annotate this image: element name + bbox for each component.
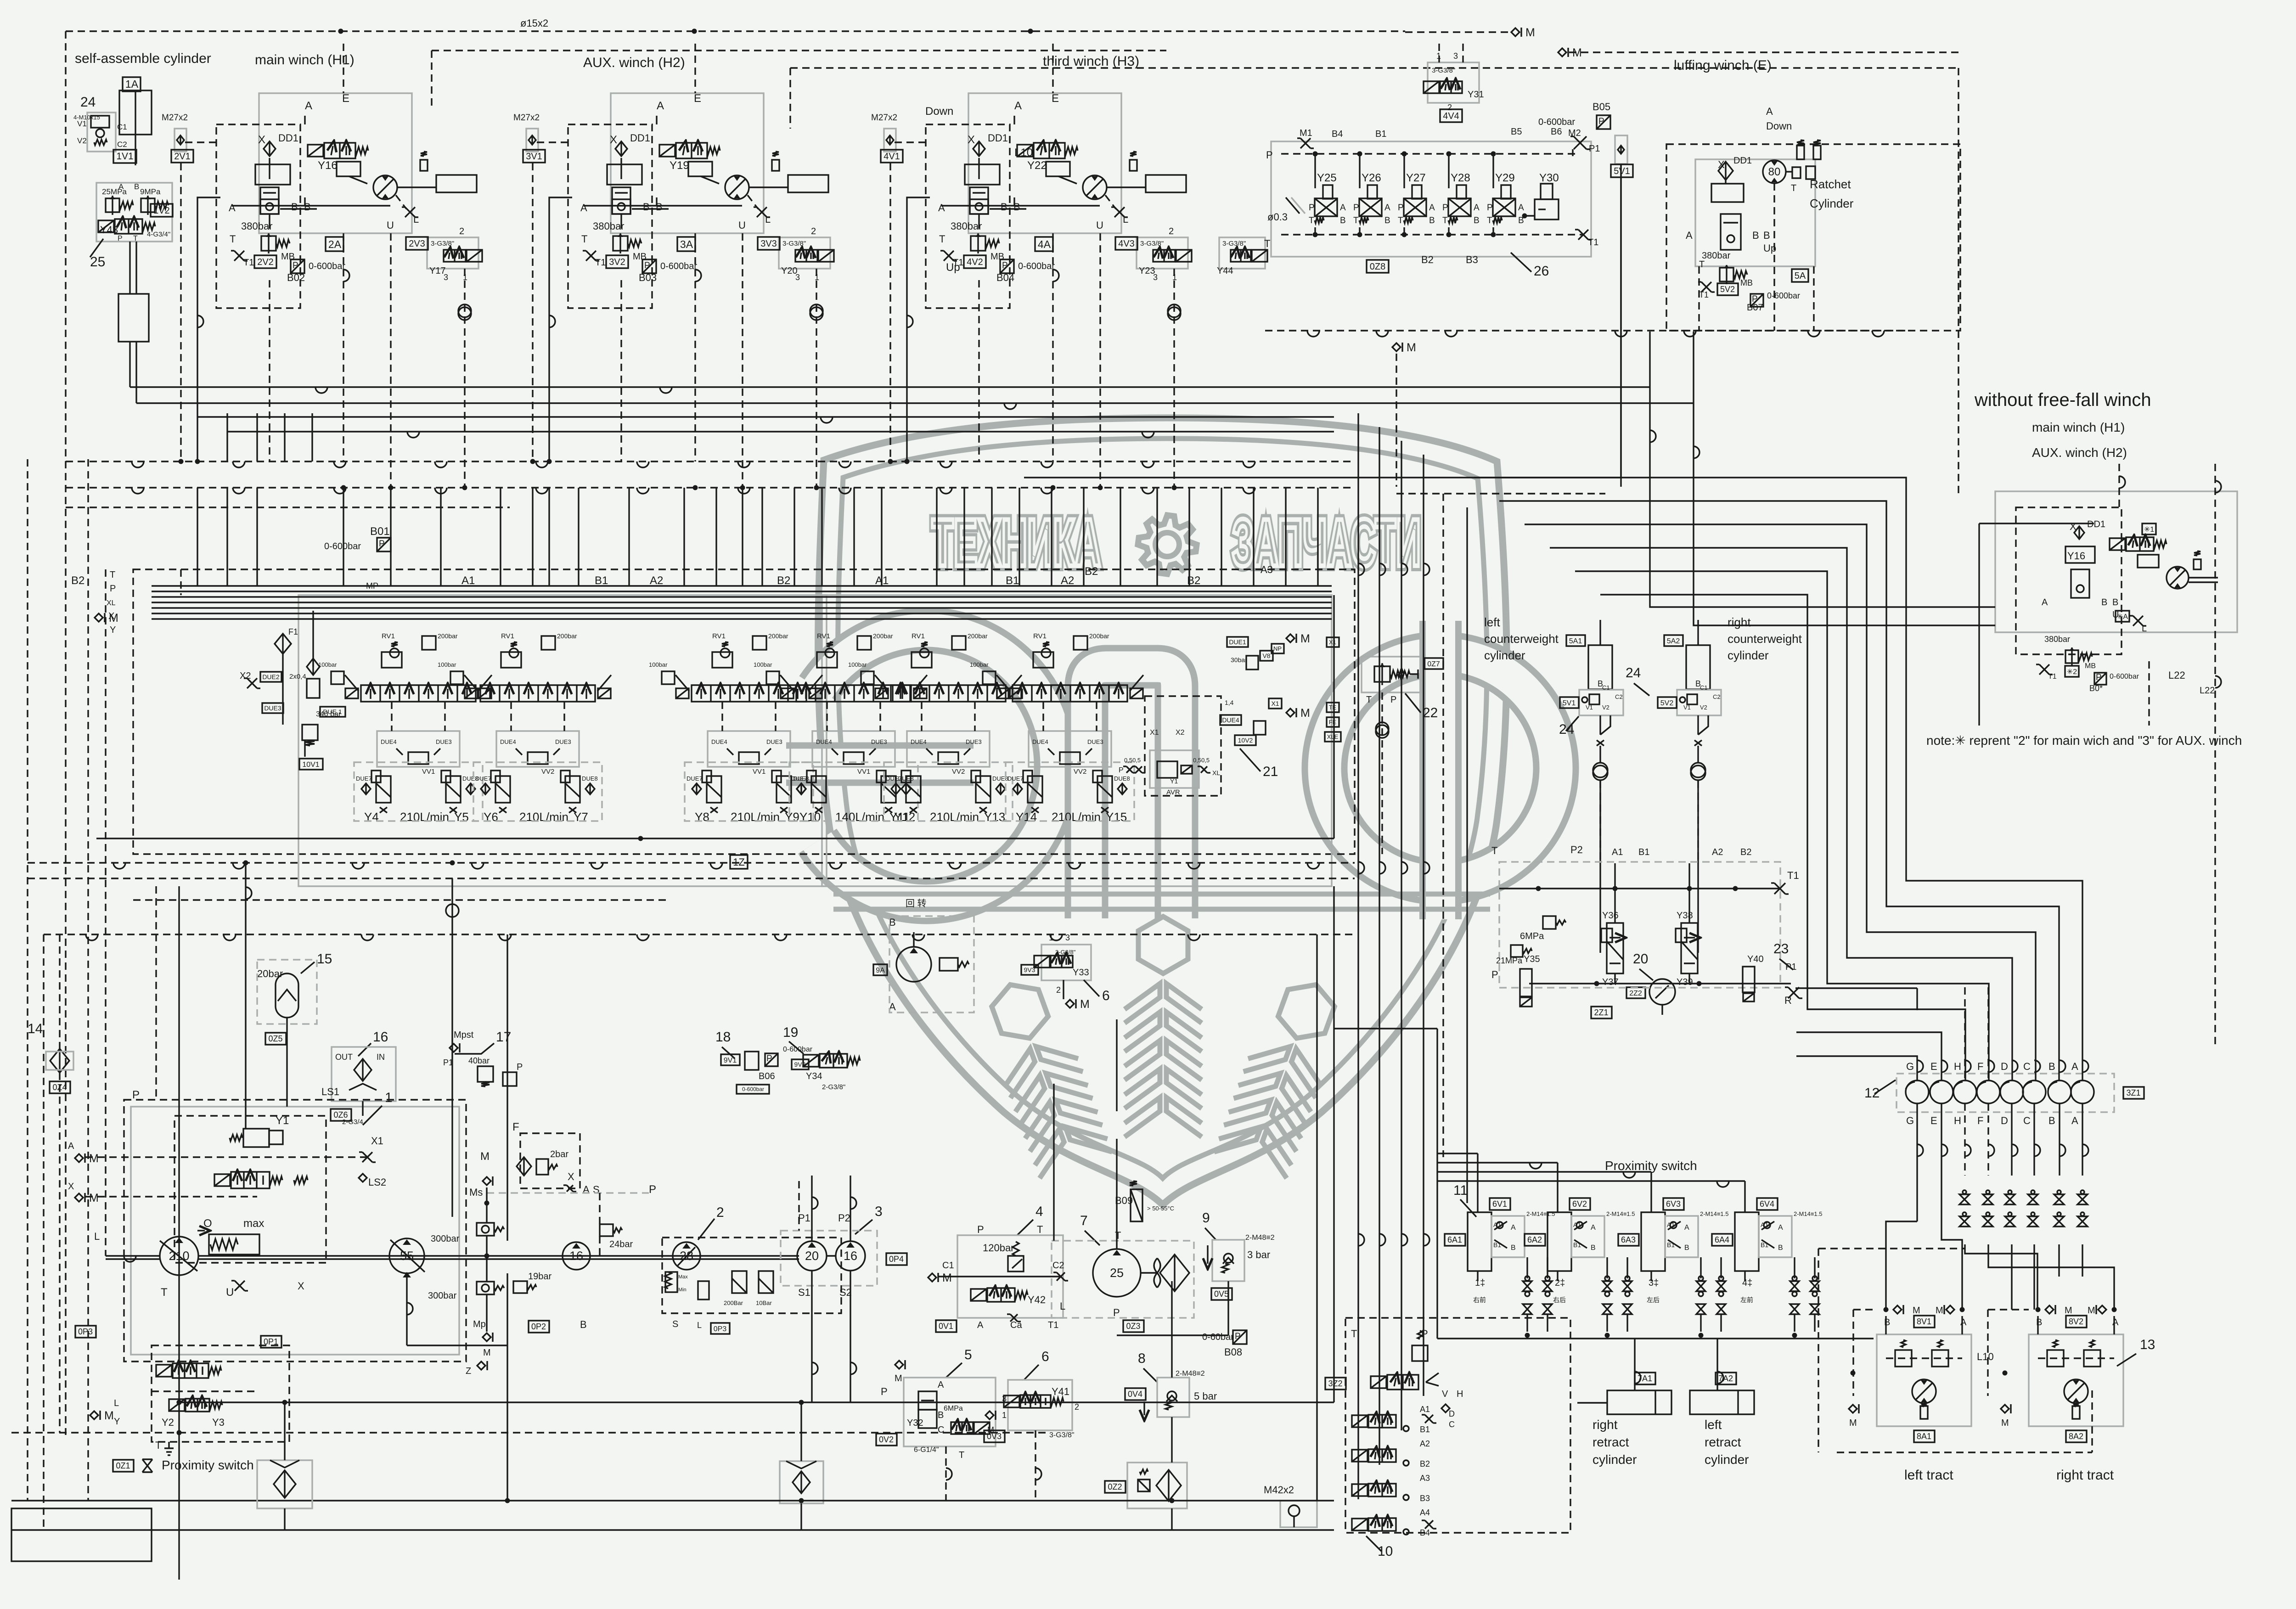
svg-text:0-60bar: 0-60bar bbox=[1202, 1332, 1234, 1342]
svg-text:F: F bbox=[1977, 1061, 1983, 1072]
svg-text:X: X bbox=[298, 1280, 304, 1292]
svg-text:Y35: Y35 bbox=[1524, 954, 1540, 964]
svg-text:2-M14≡1.5: 2-M14≡1.5 bbox=[1794, 1210, 1823, 1217]
svg-text:A: A bbox=[938, 1380, 944, 1390]
svg-text:M27x2: M27x2 bbox=[162, 113, 188, 123]
svg-text:A: A bbox=[1518, 203, 1524, 213]
svg-text:B: B bbox=[291, 201, 298, 213]
svg-text:0-600bar: 0-600bar bbox=[1018, 261, 1055, 271]
svg-text:P: P bbox=[1235, 1332, 1241, 1341]
svg-text:VV1: VV1 bbox=[857, 768, 870, 776]
svg-text:2V2: 2V2 bbox=[257, 257, 274, 267]
svg-text:DUE7: DUE7 bbox=[1007, 775, 1024, 782]
svg-text:Y30: Y30 bbox=[1539, 172, 1559, 184]
svg-text:17: 17 bbox=[496, 1030, 511, 1045]
svg-text:E: E bbox=[1930, 1115, 1937, 1126]
svg-text:main winch (H1): main winch (H1) bbox=[2032, 420, 2125, 434]
svg-text:0-600bar: 0-600bar bbox=[660, 261, 697, 271]
svg-text:DUE1: DUE1 bbox=[1229, 638, 1246, 646]
svg-text:B: B bbox=[1340, 216, 1346, 225]
svg-text:3A: 3A bbox=[680, 238, 693, 250]
svg-text:IN: IN bbox=[377, 1052, 385, 1062]
svg-text:2-M48≡2: 2-M48≡2 bbox=[1245, 1234, 1275, 1242]
svg-text:C1: C1 bbox=[1602, 684, 1610, 691]
svg-text:P: P bbox=[379, 539, 385, 549]
svg-text:3: 3 bbox=[875, 1204, 883, 1219]
svg-text:U: U bbox=[226, 1286, 234, 1299]
svg-text:Y27: Y27 bbox=[1406, 172, 1426, 184]
winch group third bbox=[968, 93, 1121, 233]
svg-text:right: right bbox=[1728, 615, 1751, 629]
svg-text:9V1: 9V1 bbox=[724, 1057, 737, 1064]
svg-text:1: 1 bbox=[1002, 1411, 1007, 1420]
svg-text:3-G3/8": 3-G3/8" bbox=[1049, 1431, 1075, 1439]
svg-text:2-M14≡1.5: 2-M14≡1.5 bbox=[1526, 1210, 1555, 1217]
svg-text:X: X bbox=[610, 134, 617, 146]
svg-text:P: P bbox=[1119, 766, 1124, 774]
svg-text:Proximity switch: Proximity switch bbox=[1605, 1159, 1697, 1173]
svg-text:Y25: Y25 bbox=[1317, 172, 1337, 184]
svg-text:24: 24 bbox=[1626, 665, 1641, 681]
svg-text:B: B bbox=[134, 182, 139, 191]
svg-text:6MPa: 6MPa bbox=[1520, 931, 1544, 941]
svg-text:A3: A3 bbox=[1420, 1474, 1430, 1483]
svg-text:O: O bbox=[203, 1217, 212, 1230]
svg-text:5V1: 5V1 bbox=[1614, 166, 1630, 176]
svg-text:15: 15 bbox=[317, 951, 332, 967]
svg-text:B04: B04 bbox=[996, 272, 1014, 283]
svg-text:cylinder: cylinder bbox=[1484, 648, 1525, 662]
svg-text:VV1: VV1 bbox=[422, 768, 435, 776]
svg-text:DUE3: DUE3 bbox=[1087, 738, 1103, 745]
svg-text:G: G bbox=[1906, 1061, 1914, 1072]
tank lines bbox=[11, 1500, 1334, 1501]
svg-text:6: 6 bbox=[1102, 988, 1110, 1003]
svg-text:2: 2 bbox=[716, 1205, 724, 1220]
svg-text:DUE4: DUE4 bbox=[1222, 716, 1239, 724]
svg-text:DD1: DD1 bbox=[630, 132, 650, 144]
svg-text:A: A bbox=[1474, 203, 1480, 213]
svg-text:T: T bbox=[1366, 695, 1372, 705]
svg-text:0V5: 0V5 bbox=[1214, 1289, 1229, 1299]
svg-text:Y33: Y33 bbox=[1073, 968, 1089, 978]
svg-text:40bar: 40bar bbox=[468, 1056, 490, 1065]
svg-text:11: 11 bbox=[1453, 1183, 1468, 1198]
svg-text:M1: M1 bbox=[1300, 128, 1312, 138]
svg-text:Z: Z bbox=[466, 1366, 471, 1376]
svg-text:19: 19 bbox=[783, 1025, 798, 1040]
svg-text:2: 2 bbox=[1169, 226, 1174, 236]
svg-text:4V3: 4V3 bbox=[1118, 239, 1135, 249]
svg-text:5: 5 bbox=[964, 1347, 972, 1362]
svg-text:2: 2 bbox=[1447, 103, 1452, 112]
svg-text:1‡: 1‡ bbox=[1475, 1278, 1485, 1288]
svg-text:Y16: Y16 bbox=[318, 159, 338, 172]
svg-text:0,50,5: 0,50,5 bbox=[1124, 757, 1141, 764]
Y2 Y3 pilot valves bbox=[152, 1345, 289, 1442]
luffing winch 5A bbox=[1695, 159, 1815, 266]
valve section Y6/Y7 bbox=[511, 642, 517, 647]
svg-text:P2: P2 bbox=[838, 1212, 850, 1224]
svg-text:P: P bbox=[1002, 261, 1008, 270]
svg-text:A4: A4 bbox=[1420, 1508, 1430, 1517]
svg-text:0Z2: 0Z2 bbox=[1108, 1482, 1122, 1491]
svg-text:B: B bbox=[1778, 1244, 1783, 1252]
svg-text:S1: S1 bbox=[798, 1287, 810, 1298]
svg-text:6V2: 6V2 bbox=[1572, 1199, 1587, 1209]
svg-text:LS2: LS2 bbox=[368, 1176, 386, 1188]
svg-text:Y40: Y40 bbox=[1747, 954, 1764, 964]
svg-text:Y31: Y31 bbox=[1468, 90, 1484, 100]
svg-text:30bar: 30bar bbox=[1231, 656, 1247, 664]
svg-text:Y3: Y3 bbox=[212, 1417, 225, 1428]
svg-text:A: A bbox=[118, 182, 124, 191]
svg-text:MB: MB bbox=[1740, 278, 1753, 287]
svg-text:B01: B01 bbox=[370, 525, 390, 538]
svg-text:Y44: Y44 bbox=[1217, 266, 1233, 276]
svg-text:M: M bbox=[480, 1150, 490, 1163]
svg-text:H: H bbox=[1954, 1115, 1961, 1126]
svg-text:cylinder: cylinder bbox=[1705, 1452, 1749, 1467]
svg-text:✳2: ✳2 bbox=[2067, 668, 2077, 676]
svg-text:A: A bbox=[2071, 1115, 2078, 1126]
svg-text:RV1: RV1 bbox=[817, 632, 830, 640]
svg-text:B: B bbox=[2048, 1061, 2055, 1072]
svg-text:A: A bbox=[1591, 1224, 1596, 1232]
svg-text:20: 20 bbox=[1633, 951, 1648, 967]
winch group aux bbox=[611, 93, 764, 233]
svg-text:1V2: 1V2 bbox=[153, 206, 170, 216]
svg-text:DD1: DD1 bbox=[988, 132, 1008, 144]
svg-text:retract: retract bbox=[1705, 1435, 1741, 1449]
svg-text:D: D bbox=[1449, 1409, 1455, 1418]
svg-text:1A: 1A bbox=[125, 78, 139, 90]
svg-text:A: A bbox=[1384, 203, 1390, 213]
svg-text:P: P bbox=[1113, 1307, 1120, 1318]
svg-text:XLE: XLE bbox=[1327, 733, 1339, 740]
svg-text:25: 25 bbox=[1110, 1266, 1124, 1280]
svg-text:L10: L10 bbox=[1977, 1351, 1994, 1362]
svg-text:B03: B03 bbox=[639, 272, 657, 283]
svg-text:A1: A1 bbox=[461, 574, 475, 587]
svg-text:V8: V8 bbox=[1262, 652, 1270, 659]
svg-text:DUE8: DUE8 bbox=[582, 775, 598, 782]
svg-text:B2: B2 bbox=[1187, 574, 1200, 587]
svg-text:右前: 右前 bbox=[1473, 1296, 1486, 1304]
svg-text:U: U bbox=[738, 219, 746, 231]
svg-text:L: L bbox=[413, 214, 419, 225]
svg-text:A: A bbox=[1014, 100, 1022, 112]
svg-text:B: B bbox=[938, 1410, 944, 1420]
svg-text:X: X bbox=[68, 1181, 74, 1192]
svg-text:V1: V1 bbox=[77, 119, 87, 128]
svg-text:A1: A1 bbox=[1612, 847, 1623, 857]
svg-text:P: P bbox=[118, 235, 123, 242]
svg-text:U: U bbox=[1096, 219, 1103, 231]
svg-text:19bar: 19bar bbox=[528, 1271, 551, 1282]
svg-text:AUX. winch (H2): AUX. winch (H2) bbox=[2032, 445, 2127, 460]
svg-text:P: P bbox=[977, 1224, 984, 1235]
svg-text:M: M bbox=[89, 1152, 99, 1165]
svg-text:VV2: VV2 bbox=[952, 768, 965, 776]
svg-text:3: 3 bbox=[1065, 933, 1070, 942]
svg-text:T: T bbox=[1353, 216, 1359, 225]
svg-text:3V3: 3V3 bbox=[760, 239, 777, 249]
svg-text:3 bar: 3 bar bbox=[1247, 1249, 1270, 1260]
svg-text:A: A bbox=[229, 202, 236, 214]
svg-text:main winch (H1): main winch (H1) bbox=[255, 52, 355, 68]
svg-text:T: T bbox=[1487, 216, 1492, 225]
svg-text:DUE7: DUE7 bbox=[791, 775, 807, 782]
svg-text:X1: X1 bbox=[371, 1135, 383, 1147]
valve section Y8/Y9 bbox=[722, 642, 728, 647]
svg-text:Y1: Y1 bbox=[276, 1114, 289, 1127]
svg-text:B2: B2 bbox=[1420, 1459, 1430, 1468]
svg-text:X: X bbox=[968, 134, 975, 146]
svg-text:120bar: 120bar bbox=[983, 1242, 1014, 1254]
tank filter bbox=[257, 1460, 312, 1508]
svg-text:T: T bbox=[1398, 216, 1403, 225]
svg-text:TE: TE bbox=[1329, 704, 1337, 711]
svg-text:100bar: 100bar bbox=[318, 661, 337, 668]
svg-text:6A2: 6A2 bbox=[1527, 1235, 1542, 1244]
svg-text:3V1: 3V1 bbox=[526, 152, 542, 162]
svg-text:Cylinder: Cylinder bbox=[1810, 197, 1854, 210]
svg-text:A: A bbox=[305, 100, 312, 112]
svg-text:A: A bbox=[68, 1141, 74, 1151]
svg-text:M: M bbox=[1936, 1305, 1943, 1316]
svg-text:10Bar: 10Bar bbox=[756, 1300, 772, 1306]
svg-text:B1: B1 bbox=[595, 574, 608, 587]
svg-text:B: B bbox=[2048, 1115, 2055, 1126]
svg-text:Y: Y bbox=[114, 1417, 120, 1427]
svg-text:200bar: 200bar bbox=[1089, 632, 1109, 640]
svg-text:M: M bbox=[104, 1409, 114, 1422]
right wiring bundle bbox=[1795, 987, 1917, 989]
svg-text:Y37: Y37 bbox=[1602, 977, 1619, 987]
svg-text:20: 20 bbox=[805, 1249, 819, 1263]
svg-text:Y36: Y36 bbox=[1602, 911, 1619, 921]
svg-text:B: B bbox=[1474, 216, 1480, 225]
svg-text:AUX. winch (H2): AUX. winch (H2) bbox=[583, 55, 685, 70]
svg-text:B1: B1 bbox=[1420, 1425, 1430, 1434]
svg-text:Y42: Y42 bbox=[1028, 1294, 1046, 1305]
svg-text:DD1: DD1 bbox=[1733, 156, 1752, 166]
svg-text:B1: B1 bbox=[1573, 1241, 1581, 1249]
svg-text:6-G1/4": 6-G1/4" bbox=[914, 1446, 939, 1454]
svg-text:P: P bbox=[1309, 203, 1315, 213]
svg-text:A2: A2 bbox=[650, 574, 663, 587]
svg-text:P: P bbox=[517, 1062, 523, 1072]
svg-text:L22: L22 bbox=[2168, 669, 2185, 681]
svg-text:5A: 5A bbox=[1795, 271, 1806, 281]
valve section Y12/Y13 bbox=[921, 642, 928, 647]
svg-text:2-M48≡2: 2-M48≡2 bbox=[1176, 1370, 1205, 1378]
svg-text:X: X bbox=[258, 134, 265, 146]
svg-text:0V2: 0V2 bbox=[879, 1435, 894, 1444]
svg-text:VV1: VV1 bbox=[753, 768, 765, 776]
svg-text:P1: P1 bbox=[1785, 962, 1796, 972]
svg-text:8A1: 8A1 bbox=[1917, 1432, 1931, 1441]
svg-text:0,50,5: 0,50,5 bbox=[1193, 757, 1210, 764]
svg-text:P: P bbox=[766, 1054, 772, 1063]
svg-text:B: B bbox=[2036, 1317, 2042, 1328]
block 21 A3 bbox=[1145, 696, 1221, 796]
svg-text:T: T bbox=[155, 1440, 161, 1451]
retract cylinders 7A1 7A2 bbox=[1635, 1373, 1655, 1384]
svg-text:T: T bbox=[1115, 1230, 1121, 1241]
svg-text:DUE4: DUE4 bbox=[911, 738, 927, 745]
svg-text:B02: B02 bbox=[287, 272, 305, 283]
svg-text:Mpst: Mpst bbox=[454, 1030, 474, 1040]
svg-text:M: M bbox=[2001, 1418, 2009, 1428]
svg-text:note:✳ reprent "2" for main w: note:✳ reprent "2" for main wich and "3"… bbox=[1926, 733, 2242, 748]
svg-text:cylinder: cylinder bbox=[1728, 648, 1769, 662]
svg-text:0Z1: 0Z1 bbox=[116, 1461, 130, 1470]
svg-text:9V2: 9V2 bbox=[794, 1061, 806, 1068]
svg-text:L: L bbox=[1060, 1300, 1065, 1312]
svg-text:V2: V2 bbox=[1602, 704, 1609, 711]
svg-text:7A2: 7A2 bbox=[1718, 1374, 1733, 1383]
svg-text:third winch (H3): third winch (H3) bbox=[1043, 54, 1139, 69]
svg-text:B: B bbox=[2112, 597, 2118, 608]
svg-text:200bar: 200bar bbox=[873, 632, 893, 640]
svg-text:XL: XL bbox=[1212, 769, 1220, 776]
svg-text:M: M bbox=[483, 1348, 491, 1358]
svg-text:H: H bbox=[1457, 1389, 1463, 1399]
svg-text:2: 2 bbox=[459, 226, 464, 236]
svg-text:100bar: 100bar bbox=[848, 661, 867, 668]
svg-text:T: T bbox=[161, 1286, 168, 1299]
svg-text:L: L bbox=[2142, 624, 2147, 634]
svg-text:L: L bbox=[114, 1398, 119, 1408]
svg-text:B1: B1 bbox=[1761, 1241, 1768, 1249]
svg-text:left tract: left tract bbox=[1904, 1468, 1953, 1483]
svg-text:200bar: 200bar bbox=[968, 632, 988, 640]
svg-text:ø0.3: ø0.3 bbox=[1267, 211, 1288, 223]
svg-text:3-G3/8": 3-G3/8" bbox=[431, 240, 454, 248]
svg-text:L: L bbox=[697, 1321, 702, 1330]
svg-text:A3: A3 bbox=[1261, 564, 1273, 575]
svg-text:Y2: Y2 bbox=[162, 1417, 174, 1428]
svg-text:Y: Y bbox=[110, 625, 116, 635]
svg-text:0Z7: 0Z7 bbox=[1427, 660, 1440, 668]
svg-text:DUE3: DUE3 bbox=[966, 738, 982, 745]
svg-text:0Z5: 0Z5 bbox=[268, 1034, 282, 1043]
svg-text:A2: A2 bbox=[1420, 1439, 1430, 1448]
svg-text:16: 16 bbox=[569, 1249, 583, 1263]
svg-text:380bar: 380bar bbox=[241, 220, 273, 232]
svg-text:Y19: Y19 bbox=[670, 159, 689, 172]
svg-text:8V2: 8V2 bbox=[2069, 1317, 2083, 1326]
svg-text:B5: B5 bbox=[1511, 127, 1522, 137]
svg-text:C: C bbox=[2023, 1061, 2031, 1072]
svg-text:左前: 左前 bbox=[1740, 1296, 1753, 1304]
svg-text:B2: B2 bbox=[1421, 254, 1434, 265]
svg-text:luffing winch (E): luffing winch (E) bbox=[1674, 58, 1772, 73]
svg-text:Min: Min bbox=[678, 1287, 687, 1293]
svg-text:B2: B2 bbox=[1740, 847, 1751, 857]
svg-text:Down: Down bbox=[925, 105, 953, 118]
svg-text:A2: A2 bbox=[1061, 574, 1074, 587]
svg-text:8: 8 bbox=[1138, 1351, 1146, 1366]
Y25-Y30 valve row block 26 bbox=[1271, 141, 1591, 257]
svg-text:2-M14≡1.5: 2-M14≡1.5 bbox=[1606, 1210, 1635, 1217]
9A swing pump bbox=[873, 964, 887, 975]
svg-text:B4: B4 bbox=[1420, 1528, 1430, 1537]
svg-text:3-G3/8": 3-G3/8" bbox=[1055, 949, 1076, 956]
svg-text:3‡: 3‡ bbox=[1649, 1278, 1659, 1288]
svg-text:A: A bbox=[1960, 1317, 1967, 1328]
svg-text:5A1: 5A1 bbox=[1569, 637, 1582, 645]
svg-text:5 bar: 5 bar bbox=[1194, 1390, 1217, 1402]
svg-text:B: B bbox=[1684, 1244, 1689, 1252]
svg-text:> 50-55°C: > 50-55°C bbox=[1147, 1205, 1174, 1212]
svg-text:2-G3/4: 2-G3/4 bbox=[342, 1118, 363, 1126]
svg-text:0V1: 0V1 bbox=[939, 1322, 953, 1331]
svg-text:2V1: 2V1 bbox=[174, 152, 191, 162]
svg-text:A: A bbox=[1766, 106, 1773, 117]
svg-text:R: R bbox=[1784, 995, 1792, 1006]
svg-text:2: 2 bbox=[1056, 985, 1061, 995]
svg-text:T: T bbox=[1037, 1224, 1043, 1235]
svg-text:380bar: 380bar bbox=[951, 220, 982, 232]
svg-text:Up: Up bbox=[946, 261, 960, 274]
svg-text:3V2: 3V2 bbox=[609, 257, 625, 267]
svg-text:Y34: Y34 bbox=[806, 1071, 822, 1081]
svg-text:RV1: RV1 bbox=[382, 632, 395, 640]
svg-text:MB: MB bbox=[990, 252, 1004, 262]
svg-text:3-G3/8": 3-G3/8" bbox=[782, 240, 806, 248]
svg-text:B: B bbox=[1591, 1244, 1596, 1252]
svg-text:12: 12 bbox=[1864, 1086, 1880, 1101]
svg-text:5V2: 5V2 bbox=[1660, 699, 1674, 707]
svg-text:P: P bbox=[1353, 203, 1359, 213]
svg-text:B: B bbox=[1884, 1317, 1890, 1328]
svg-text:21: 21 bbox=[1263, 764, 1278, 779]
svg-text:B2: B2 bbox=[777, 574, 790, 587]
svg-text:7: 7 bbox=[1080, 1213, 1088, 1228]
svg-text:2x0,4: 2x0,4 bbox=[289, 673, 306, 681]
svg-text:B1: B1 bbox=[1493, 1241, 1501, 1249]
svg-text:P: P bbox=[1598, 117, 1604, 126]
svg-text:9V3: 9V3 bbox=[1024, 966, 1035, 973]
svg-text:LS1: LS1 bbox=[321, 1086, 339, 1097]
svg-text:0Z8: 0Z8 bbox=[1370, 262, 1385, 272]
svg-text:A1: A1 bbox=[1420, 1405, 1430, 1414]
svg-text:F: F bbox=[1977, 1115, 1983, 1126]
svg-text:C1: C1 bbox=[1700, 684, 1708, 691]
svg-text:B06: B06 bbox=[759, 1071, 775, 1081]
svg-text:P: P bbox=[1421, 1328, 1428, 1339]
svg-text:C2: C2 bbox=[1052, 1260, 1064, 1271]
right routing bundle bbox=[1474, 478, 2082, 1080]
svg-text:M: M bbox=[1407, 341, 1416, 354]
svg-text:B: B bbox=[1763, 230, 1770, 241]
svg-text:4V4: 4V4 bbox=[1443, 111, 1459, 121]
svg-text:A1: A1 bbox=[1493, 1221, 1501, 1228]
svg-text:3-G3/8": 3-G3/8" bbox=[1432, 67, 1455, 74]
svg-text:B3: B3 bbox=[1466, 254, 1478, 265]
svg-text:A2: A2 bbox=[1712, 847, 1723, 857]
svg-text:Y29: Y29 bbox=[1495, 172, 1515, 184]
svg-text:H: H bbox=[1954, 1061, 1961, 1072]
svg-text:P: P bbox=[1398, 203, 1404, 213]
svg-text:9MPa: 9MPa bbox=[140, 187, 161, 196]
svg-text:0-600bar: 0-600bar bbox=[324, 541, 361, 551]
svg-text:Proximity switch: Proximity switch bbox=[162, 1458, 254, 1472]
svg-text:A: A bbox=[1340, 203, 1346, 213]
